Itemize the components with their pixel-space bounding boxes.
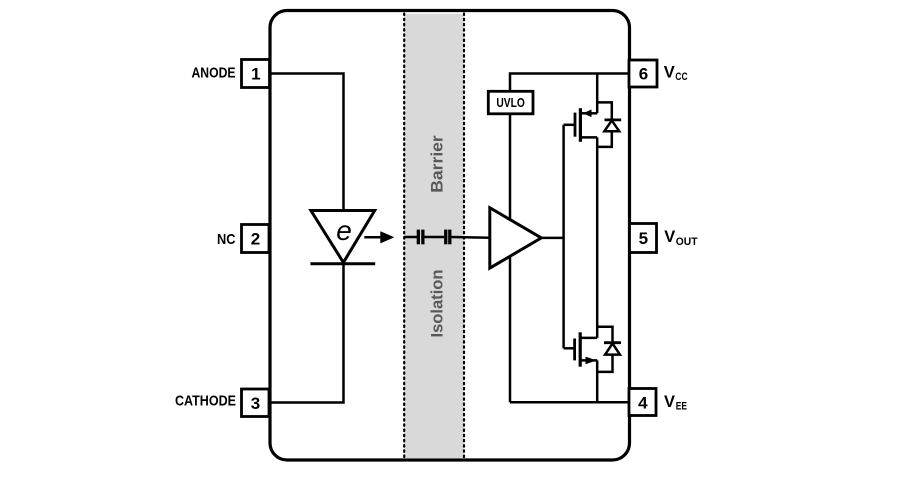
svg-text:CC: CC xyxy=(675,71,687,83)
svg-text:OUT: OUT xyxy=(676,236,698,248)
svg-text:CATHODE: CATHODE xyxy=(175,393,236,410)
svg-text:4: 4 xyxy=(638,393,648,412)
UVLO supply line xyxy=(509,114,512,403)
wire pin1 to LED anode xyxy=(270,74,344,211)
pin 5 box xyxy=(630,224,657,253)
isolation barrier strip xyxy=(405,14,464,459)
svg-text:5: 5 xyxy=(639,229,648,248)
pin 4 box xyxy=(629,389,656,416)
svg-text:UVLO: UVLO xyxy=(496,96,525,110)
capacitor C1 xyxy=(418,230,423,245)
wire Q2 source to VEE rail xyxy=(596,360,599,402)
transistor Q1 gate plate xyxy=(574,113,577,137)
transistor Q2 source lead with arrow xyxy=(580,357,597,365)
barrier dashed line left xyxy=(403,14,405,458)
wire amp output to gate bus xyxy=(541,237,563,240)
svg-text:1: 1 xyxy=(251,65,260,84)
transistor Q1 channel bar xyxy=(579,108,582,142)
wire caps to amp input xyxy=(451,236,490,239)
label VCC xyxy=(664,64,688,83)
svg-text:V: V xyxy=(664,228,675,246)
pin 1 box xyxy=(242,60,270,88)
wire between caps xyxy=(424,236,444,239)
svg-text:3: 3 xyxy=(251,394,260,413)
svg-text:Isolation: Isolation xyxy=(427,270,446,338)
transistor Q2 channel bar xyxy=(579,332,582,366)
wire LED cathode to pin3 xyxy=(270,264,344,403)
bottom rail VEE xyxy=(510,401,630,404)
svg-text:V: V xyxy=(664,393,675,411)
transistor Q1 gate lead xyxy=(564,124,575,127)
gate bus vertical xyxy=(562,125,565,348)
arrow light emission xyxy=(364,231,394,243)
pin 6 box xyxy=(629,60,657,87)
pin 3 box xyxy=(242,389,270,417)
transistor Q2 gate plate xyxy=(573,339,576,361)
svg-text:e: e xyxy=(336,215,352,246)
transistor Q1 drain lead with arrow xyxy=(582,110,598,118)
LED cathode bar xyxy=(310,262,375,265)
amplifier U2 xyxy=(490,208,542,268)
transistor Q1 source lead xyxy=(580,136,597,139)
top rail VCC xyxy=(510,74,629,92)
svg-text:Barrier: Barrier xyxy=(427,135,446,193)
diode D2 branch xyxy=(597,102,621,146)
svg-text:6: 6 xyxy=(639,64,648,83)
UVLO box xyxy=(488,91,533,114)
wire VCC to Q1 drain xyxy=(596,74,599,114)
IC body U1 xyxy=(270,11,630,461)
svg-text:ANODE: ANODE xyxy=(192,65,236,82)
svg-text:EE: EE xyxy=(676,400,687,412)
svg-text:V: V xyxy=(664,64,675,82)
diode D3 branch xyxy=(597,327,621,372)
label VOUT xyxy=(664,228,698,248)
LED emitter D1 triangle xyxy=(311,211,375,263)
wire Q1 source to Q2 drain (VOUT node) xyxy=(596,137,599,338)
transistor Q2 gate lead xyxy=(564,347,575,350)
transistor Q2 drain lead xyxy=(580,337,597,340)
svg-text:2: 2 xyxy=(251,230,260,249)
wire barrier caps left xyxy=(404,236,417,239)
label VEE xyxy=(664,393,687,413)
pin 2 box xyxy=(242,225,270,253)
capacitor C2 xyxy=(446,230,450,245)
barrier dashed line right xyxy=(463,14,465,458)
svg-text:NC: NC xyxy=(217,231,236,248)
